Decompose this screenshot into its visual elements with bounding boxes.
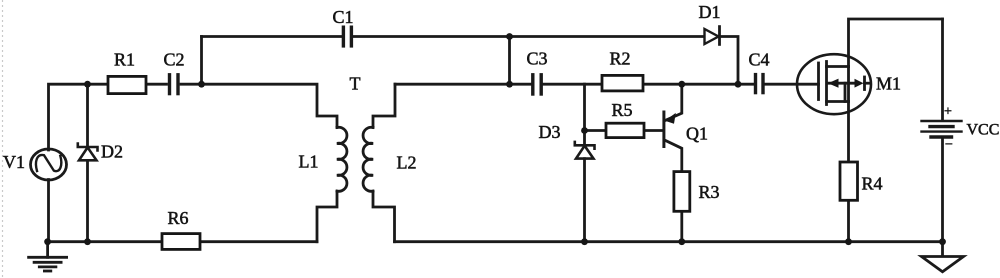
svg-text:D2: D2 — [101, 142, 123, 162]
svg-text:C4: C4 — [749, 50, 770, 70]
svg-text:R3: R3 — [699, 182, 720, 202]
svg-text:VCC: VCC — [967, 122, 1000, 139]
svg-text:D3: D3 — [539, 122, 561, 142]
svg-text:T: T — [350, 74, 361, 94]
svg-text:R6: R6 — [168, 208, 189, 228]
svg-text:Q1: Q1 — [686, 124, 708, 144]
svg-text:C1: C1 — [333, 7, 354, 27]
svg-text:L2: L2 — [397, 153, 417, 173]
svg-text:R4: R4 — [862, 174, 883, 194]
svg-text:L1: L1 — [299, 152, 319, 172]
svg-text:R5: R5 — [612, 100, 633, 120]
svg-text:C2: C2 — [164, 50, 185, 70]
svg-text:+: + — [944, 105, 952, 120]
svg-text:V1: V1 — [3, 152, 25, 172]
svg-text:M1: M1 — [876, 74, 901, 94]
svg-text:C3: C3 — [527, 49, 548, 69]
svg-text:R2: R2 — [610, 49, 631, 69]
svg-text:D1: D1 — [699, 2, 721, 22]
svg-text:−: − — [945, 138, 953, 153]
svg-text:R1: R1 — [114, 50, 135, 70]
